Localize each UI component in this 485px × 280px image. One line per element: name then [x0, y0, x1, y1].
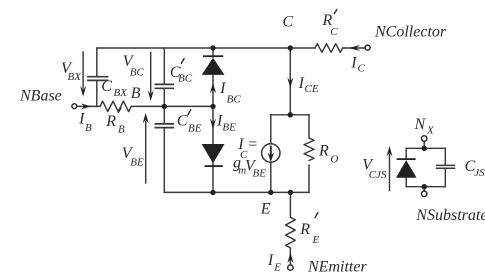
svg-text:C: C: [330, 26, 338, 38]
svg-text:BE: BE: [130, 157, 144, 169]
svg-text:R: R: [318, 143, 329, 160]
svg-text:=: =: [247, 136, 258, 153]
svg-text:BX: BX: [114, 87, 129, 99]
svg-text:CJS: CJS: [369, 169, 387, 181]
svg-text:BX: BX: [68, 71, 83, 83]
svg-text:BE: BE: [188, 122, 202, 134]
svg-text:C: C: [240, 149, 248, 161]
svg-text:NCollector: NCollector: [374, 23, 447, 40]
svg-text:B: B: [131, 85, 141, 102]
svg-text:E: E: [312, 234, 320, 246]
svg-text:C: C: [101, 78, 112, 95]
svg-text:X: X: [426, 124, 435, 136]
svg-text:I: I: [267, 252, 274, 269]
svg-text:I: I: [350, 55, 357, 72]
svg-text:E: E: [273, 261, 281, 273]
svg-text:O: O: [330, 154, 338, 166]
svg-text:JS: JS: [474, 167, 485, 179]
svg-text:C: C: [177, 113, 188, 130]
svg-text:BC: BC: [227, 93, 242, 105]
svg-text:BC: BC: [130, 66, 145, 78]
svg-text:B: B: [85, 122, 92, 134]
svg-text:m: m: [238, 165, 246, 177]
svg-text:NEmitter: NEmitter: [307, 259, 367, 276]
svg-text:N: N: [414, 116, 427, 133]
svg-text:B: B: [118, 123, 125, 135]
svg-text:C: C: [358, 62, 366, 74]
svg-text:C: C: [283, 13, 294, 30]
svg-text:E: E: [260, 200, 271, 217]
svg-text:BC: BC: [178, 72, 193, 84]
svg-text:R: R: [105, 113, 116, 130]
svg-text:R: R: [299, 221, 310, 238]
svg-text:CE: CE: [305, 83, 319, 95]
svg-text:NBase: NBase: [19, 88, 62, 105]
svg-text:BE: BE: [222, 122, 236, 134]
svg-text:NSubstrate: NSubstrate: [415, 207, 485, 224]
svg-text:BE: BE: [253, 168, 267, 180]
svg-text:I: I: [219, 80, 226, 97]
